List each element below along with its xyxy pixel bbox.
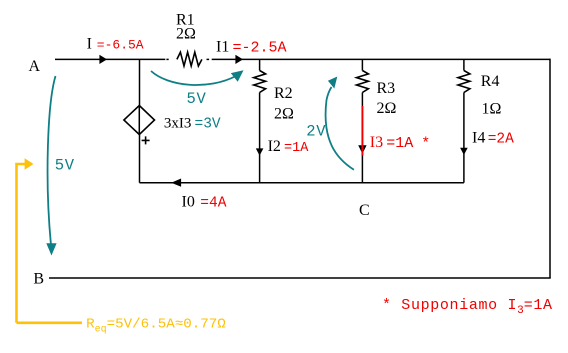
- voltage arc 2V across R3: [326, 87, 354, 170]
- resistor R3: [357, 71, 369, 93]
- equivalent resistance pointer arrow: [17, 164, 26, 323]
- dependent source E1 diamond 3xI3: [124, 106, 155, 135]
- wire top left segment A to R1: [55, 58, 165, 60]
- svg-text:5V: 5V: [55, 156, 75, 174]
- current arrow I on top wire: [99, 55, 107, 64]
- resistor R2: [254, 71, 266, 93]
- svg-text:3xI3: 3xI3: [164, 116, 192, 132]
- wire resistor R3 branch bottom: [361, 93, 363, 183]
- svg-text:2Ω: 2Ω: [377, 100, 397, 117]
- wire resistor R4 branch bottom: [463, 93, 465, 183]
- wire right side vertical: [549, 59, 551, 278]
- svg-text:=-6.5A: =-6.5A: [97, 37, 144, 52]
- voltage arc 5V AB arrowhead: [46, 243, 56, 255]
- svg-text:2Ω: 2Ω: [176, 26, 196, 43]
- voltage arc 2V arrowhead: [328, 77, 337, 89]
- equivalent resistance pointer arrowhead: [25, 158, 34, 169]
- svg-text:A: A: [29, 58, 41, 75]
- svg-text:I1: I1: [216, 39, 229, 56]
- svg-text:B: B: [33, 271, 44, 288]
- wire resistor R3 branch top: [361, 59, 363, 70]
- wire bottom inner node C: [140, 182, 464, 184]
- svg-text:I: I: [87, 35, 92, 52]
- svg-text:=-2.5A: =-2.5A: [233, 40, 287, 57]
- wire R1 left lead dash: [166, 58, 168, 60]
- current I3 red highlight line: [361, 106, 363, 156]
- wire dependent source branch: [139, 59, 141, 182]
- svg-text:I0: I0: [182, 194, 195, 211]
- svg-text:1Ω: 1Ω: [482, 100, 502, 117]
- svg-text:5V: 5V: [187, 90, 207, 108]
- svg-text:2Ω: 2Ω: [274, 106, 294, 123]
- svg-text:=1A: =1A: [284, 141, 309, 156]
- voltage arc 5V across port AB: [48, 76, 56, 244]
- wire R1 right lead dash: [207, 58, 210, 60]
- svg-text:* Supponiamo I3=1A: * Supponiamo I3=1A: [382, 297, 553, 317]
- resistor R1: [177, 52, 202, 66]
- svg-text:R2: R2: [274, 85, 293, 102]
- svg-text:I3: I3: [370, 134, 383, 151]
- wire resistor R4 branch top: [463, 59, 465, 70]
- equivalent resistance pointer bottom line: [17, 321, 82, 324]
- svg-text:=3V: =3V: [195, 117, 221, 133]
- resistor R4: [458, 71, 470, 93]
- voltage arc 5V across R1: [151, 71, 236, 85]
- svg-text:=4A: =4A: [200, 196, 226, 212]
- current arrow I0 pointing left: [171, 179, 181, 187]
- svg-text:R4: R4: [481, 73, 500, 90]
- svg-text:2V: 2V: [306, 123, 326, 141]
- wire node B horizontal: [49, 277, 551, 279]
- dependent source plus sign: [142, 136, 150, 144]
- current arrow I3 black head: [358, 145, 366, 154]
- current arrow I4: [460, 148, 468, 155]
- wire resistor R2 branch bottom: [259, 93, 261, 183]
- wire resistor R2 branch top: [259, 59, 261, 70]
- dependent source internal wire: [138, 106, 140, 135]
- svg-text:Req=5V/6.5A≈0.77Ω: Req=5V/6.5A≈0.77Ω: [86, 317, 226, 336]
- svg-text:=2A: =2A: [488, 132, 514, 148]
- svg-text:=1A: =1A: [386, 135, 413, 152]
- current arrow I2: [256, 148, 264, 155]
- svg-text:C: C: [359, 202, 370, 219]
- svg-text:I2: I2: [268, 138, 281, 155]
- svg-text:*: *: [421, 136, 430, 153]
- voltage arc 5V R1 arrowhead: [231, 70, 244, 82]
- svg-text:R3: R3: [377, 80, 396, 97]
- current arrow I1 on top wire: [235, 55, 243, 64]
- wire top right segment R1 to right corner: [212, 58, 550, 60]
- svg-text:I4: I4: [472, 130, 485, 147]
